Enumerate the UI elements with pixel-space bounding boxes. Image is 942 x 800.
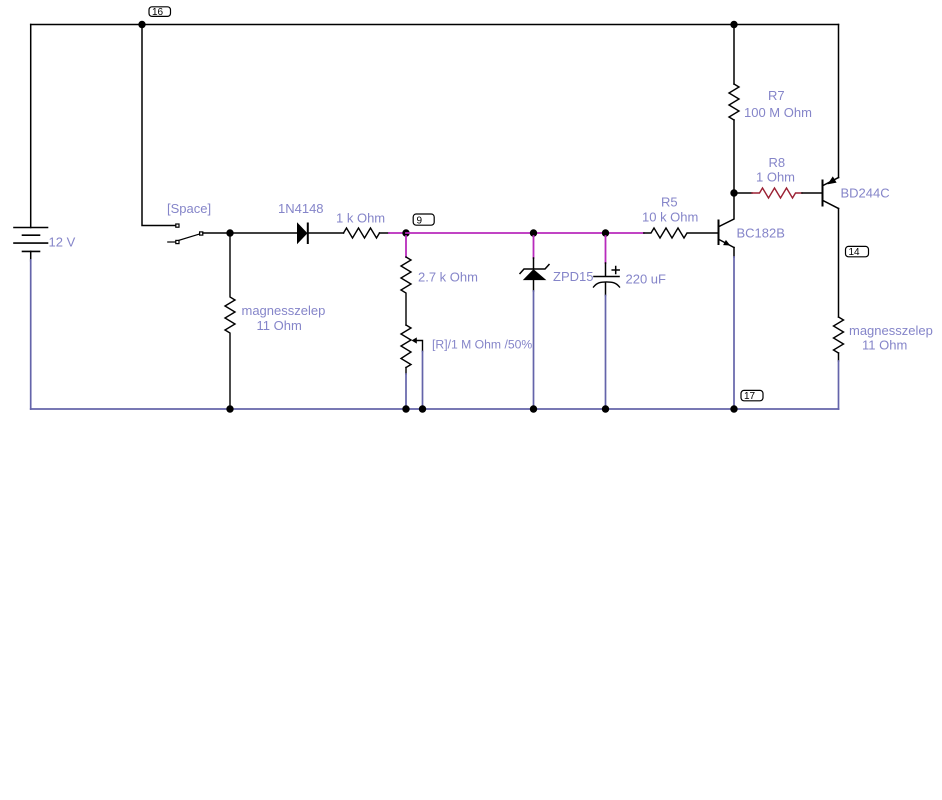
wire cap top magenta [605,236,607,263]
wire R8 to BD244C base [802,192,822,194]
pot bottom lead [405,368,407,375]
svg-text:R8: R8 [769,155,786,170]
node 16 junction dot [138,21,145,28]
wire bottom rail (blue) [31,408,839,410]
node 14 box [846,246,869,258]
wire BC182B emitter down blue [733,257,735,409]
svg-text:1 k Ohm: 1 k Ohm [336,211,385,226]
wire right rail bottom blue [838,361,840,409]
resistor left magnesszelep 11 Ohm [225,233,235,409]
node cap bottom junction dot [602,405,609,412]
wire from node16 down to switch [142,25,176,226]
battery V1 12V [14,228,48,252]
resistor R8 1 Ohm (red) [752,188,802,198]
wire BD244C collector down [838,209,840,318]
svg-text:R5: R5 [661,195,678,210]
potentiometer [R] 1 M Ohm 50% [401,325,411,368]
svg-text:ZPD15: ZPD15 [553,269,593,284]
node bottom pot wiper [419,405,426,412]
wire cap bottom black lead [605,283,607,296]
resistor R7 100 M Ohm [729,84,739,120]
wire switch to node A [203,232,230,234]
node A junction dot [226,229,233,236]
svg-text:10 k Ohm: 10 k Ohm [642,210,698,225]
svg-text:11 Ohm: 11 Ohm [257,318,302,333]
wire zener bottom blue [533,291,535,409]
svg-text:magnesszelep: magnesszelep [242,303,326,318]
svg-text:17: 17 [744,391,756,402]
svg-text:12 V: 12 V [49,235,76,250]
node bottom left magnesszelep [226,405,233,412]
svg-text:16: 16 [152,7,164,18]
svg-text:11 Ohm: 11 Ohm [862,338,907,353]
wire R2 to node9 magenta part [389,232,406,234]
wire R2 to node9 black part [380,232,390,234]
svg-text:14: 14 [849,247,861,258]
wire top rail [31,24,839,26]
diode D1 1N4148 [298,224,308,244]
capacitor C1 220 uF [594,267,620,288]
svg-text:1N4148: 1N4148 [278,201,324,216]
wire zener top magenta [533,236,535,258]
svg-text:220 uF: 220 uF [626,272,667,287]
resistor right magnesszelep 11 Ohm [834,317,844,353]
svg-text:[R]/1 M Ohm /50%: [R]/1 M Ohm /50% [432,338,532,352]
svg-text:1 Ohm: 1 Ohm [756,170,795,185]
node zener bottom junction dot [530,405,537,412]
node B junction dot [730,189,737,196]
node bottom pot left [402,405,409,412]
svg-text:magnesszelep: magnesszelep [849,323,933,338]
wire battery negative lead [30,251,32,261]
wire left rail lower (blue) [30,260,32,409]
svg-text:[Space]: [Space] [167,201,211,216]
wire top rail down to R7 [733,25,735,85]
svg-text:BD244C: BD244C [841,186,890,201]
node top rail R7 junction dot [730,21,737,28]
node zener top junction dot [530,229,537,236]
node 17 box [741,390,763,402]
transistor Q2 BD244C [823,176,839,208]
wire cap bottom blue [605,296,607,410]
wire zener top black lead [533,258,535,269]
svg-text:9: 9 [417,215,423,226]
wire right magnesszelep bottom black lead [838,353,840,361]
wire node A to diode [230,232,297,234]
wire right rail top (emitter to top rail) [838,25,840,178]
svg-text:2.7 k Ohm: 2.7 k Ohm [418,270,478,285]
wire cap top black lead [605,263,607,276]
svg-text:BC182B: BC182B [737,226,785,241]
wire diode to R2 [308,232,344,234]
resistor R5 10 k Ohm [644,228,718,238]
switch S1 [Space] [168,224,203,244]
wire magenta bus node9 to R5 [406,232,644,234]
wire node B to R8 black [734,192,752,194]
zener diode ZPD15 [520,265,549,280]
transistor Q1 BC182B [719,196,735,248]
wire left rail upper (battery +) [30,25,32,228]
wire node9 down magenta [405,236,407,257]
node capacitor top junction dot [602,229,609,236]
wire R7 to node B [733,120,735,193]
svg-text:R7: R7 [768,88,785,103]
resistor R3 2.7 k Ohm [401,257,411,325]
node 16 box [149,7,171,18]
node 9 junction dot [402,229,409,236]
node 17 junction dot [730,405,737,412]
node 9 box [413,214,434,226]
pot wiper arrow [412,337,417,343]
wire BC182B emitter down black [733,248,735,258]
svg-text:100 M Ohm: 100 M Ohm [744,105,812,120]
resistor R2 1 k Ohm [344,228,380,238]
wire zener bottom black lead [533,280,535,291]
